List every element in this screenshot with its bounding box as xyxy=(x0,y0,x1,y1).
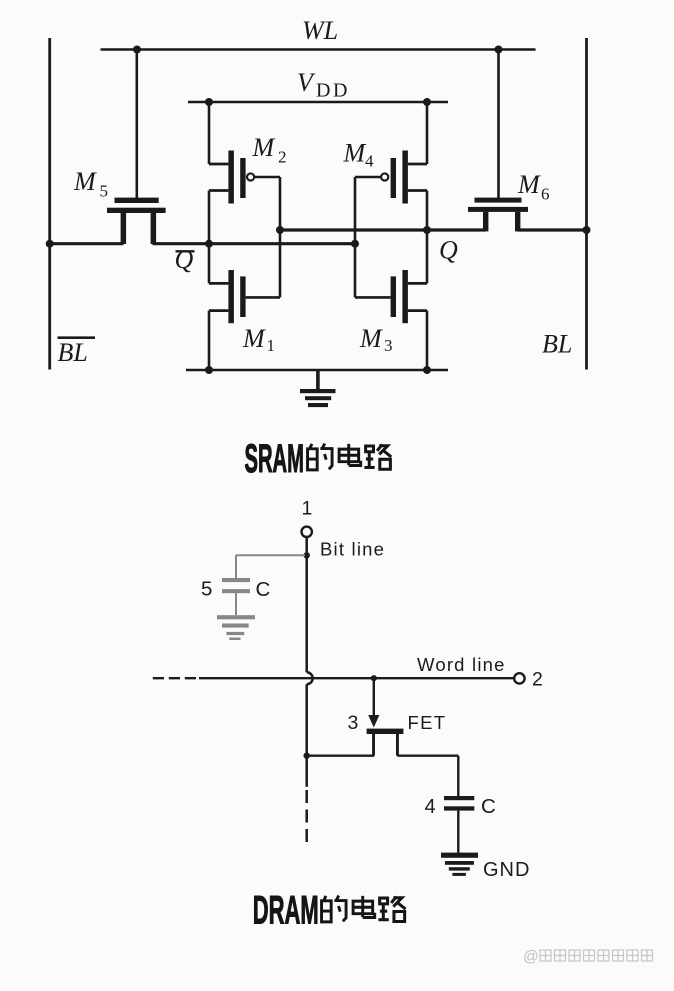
svg-text:3: 3 xyxy=(384,336,393,355)
label WL xyxy=(302,16,338,45)
label C cap4 xyxy=(481,795,496,818)
ground symbol SRAM xyxy=(300,370,336,407)
wire word line horizontal xyxy=(199,677,514,679)
node VDD to left inverter junction xyxy=(205,98,213,106)
label 4 xyxy=(425,796,436,818)
svg-text:DRAM: DRAM xyxy=(253,888,319,933)
label M6 xyxy=(517,170,550,204)
label 2 xyxy=(532,669,543,691)
wire FET drain to cap4 xyxy=(397,756,458,796)
wire word line dashed left xyxy=(153,677,199,679)
wire bit line vertical xyxy=(305,537,308,786)
svg-text:BL: BL xyxy=(58,338,88,367)
caption DRAM chinese DIAN xyxy=(353,896,375,918)
caption SRAM chinese LU xyxy=(364,445,391,470)
label BLbar xyxy=(58,338,96,367)
transistor M2 PMOS pull-up left xyxy=(209,151,280,204)
transistor M5 access NMOS xyxy=(107,50,166,245)
svg-text:2: 2 xyxy=(278,148,287,167)
transistor M3 NMOS pull-down right xyxy=(355,270,427,323)
transistor M6 access NMOS xyxy=(468,50,528,232)
svg-text:M: M xyxy=(242,324,266,353)
node BLbar to Qbar junction xyxy=(46,240,54,248)
caption DRAM chinese LU xyxy=(378,897,405,922)
transistor M4 PMOS pull-up right xyxy=(355,151,427,204)
svg-text:M: M xyxy=(252,133,276,162)
svg-text:Bit line: Bit line xyxy=(320,539,385,560)
terminal 1 circle xyxy=(302,527,312,537)
wire FET source to bit line xyxy=(307,755,374,757)
svg-text:Word line: Word line xyxy=(417,654,506,675)
label Word line xyxy=(417,654,506,675)
svg-text:5: 5 xyxy=(100,182,109,201)
node WL to M5 gate junction xyxy=(133,46,141,54)
label Bit line xyxy=(320,539,385,560)
label M5 xyxy=(73,167,108,201)
node VDD to right inverter junction xyxy=(423,98,431,106)
label Qbar xyxy=(175,245,195,274)
wire ground rail bottom horizontal xyxy=(186,369,448,372)
label Q xyxy=(439,236,458,265)
wire BL bit-line-right vertical xyxy=(585,38,588,370)
svg-text:BL: BL xyxy=(542,330,572,359)
node word line to gate junction xyxy=(371,675,377,681)
wire bit line crossover hop xyxy=(307,672,313,684)
wire Q node line xyxy=(280,228,587,231)
svg-text:6: 6 xyxy=(541,185,550,204)
watermark juejin community xyxy=(523,949,653,966)
svg-text:3: 3 xyxy=(348,712,359,734)
ground symbol cap5 gray xyxy=(217,615,255,640)
svg-text:5: 5 xyxy=(201,578,212,601)
svg-text:WL: WL xyxy=(302,16,338,45)
capacitor C4 plates xyxy=(444,796,474,811)
svg-text:M: M xyxy=(359,324,383,353)
svg-text:@: @ xyxy=(523,949,539,966)
wire left inverter rail vertical xyxy=(208,102,211,370)
node WL to M6 gate junction xyxy=(495,46,503,54)
label C cap5 xyxy=(256,578,271,601)
caption SRAM circuit xyxy=(245,435,304,480)
node left rail to Qbar junction xyxy=(205,240,213,248)
label M4 xyxy=(343,139,375,171)
label 3 xyxy=(348,712,359,734)
wire left cross-coupling gate column xyxy=(279,177,282,297)
transistor M1 NMOS pull-down left xyxy=(209,270,280,323)
label BL xyxy=(542,330,572,359)
node M1 source to ground rail junction xyxy=(205,366,213,374)
label M3 xyxy=(359,324,393,355)
label 1 xyxy=(302,498,313,520)
node left gate column to Q junction xyxy=(276,226,284,234)
label 5 xyxy=(201,578,212,601)
capacitor C5 plates gray xyxy=(222,578,250,593)
wire VDD rail horizontal xyxy=(188,101,448,104)
node bit line to FET source junction xyxy=(304,753,310,759)
node M3 source to ground rail junction xyxy=(423,366,431,374)
svg-text:M: M xyxy=(73,167,97,196)
svg-text:2: 2 xyxy=(532,669,543,691)
wire right cross-coupling gate column xyxy=(354,177,357,297)
caption SRAM chinese DIAN xyxy=(339,444,361,466)
wire right inverter rail vertical xyxy=(426,102,429,370)
wire Qbar node line xyxy=(50,242,356,245)
caption DRAM circuit xyxy=(253,888,319,933)
svg-text:4: 4 xyxy=(425,796,436,818)
svg-text:DD: DD xyxy=(316,80,350,102)
caption SRAM chinese DE xyxy=(308,444,333,470)
node BL to Q junction xyxy=(583,226,591,234)
transistor FET DRAM xyxy=(367,729,404,756)
wire BLbar bit-line-left vertical xyxy=(48,38,51,370)
svg-text:M: M xyxy=(517,170,541,199)
wire WL word line horizontal xyxy=(101,48,536,51)
ground symbol GND black xyxy=(441,853,478,876)
label VDD xyxy=(297,68,350,102)
svg-text:Q: Q xyxy=(175,245,194,274)
node right gate column to Qbar junction xyxy=(351,240,359,248)
svg-text:1: 1 xyxy=(267,336,276,355)
svg-text:SRAM: SRAM xyxy=(245,435,304,480)
svg-text:M: M xyxy=(343,139,367,168)
terminal 2 circle xyxy=(514,673,524,683)
svg-text:4: 4 xyxy=(365,152,374,171)
svg-text:C: C xyxy=(481,795,496,818)
wire bit line dashed lower xyxy=(305,790,308,843)
label M1 xyxy=(242,324,275,355)
node bit line to cap5 junction xyxy=(304,552,310,558)
caption DRAM chinese DE xyxy=(322,896,347,922)
wire cap4 to ground xyxy=(457,811,459,853)
svg-text:1: 1 xyxy=(302,498,313,520)
label M2 xyxy=(252,133,287,167)
svg-text:Q: Q xyxy=(439,236,458,265)
node right rail to Q junction xyxy=(423,226,431,234)
capacitor C5 branch wires gray xyxy=(236,555,305,615)
svg-text:GND: GND xyxy=(483,859,530,881)
label GND xyxy=(483,859,530,881)
svg-text:FET: FET xyxy=(408,712,447,733)
svg-text:C: C xyxy=(256,578,271,601)
wire gate arrow FET xyxy=(368,678,379,727)
label FET xyxy=(408,712,447,733)
